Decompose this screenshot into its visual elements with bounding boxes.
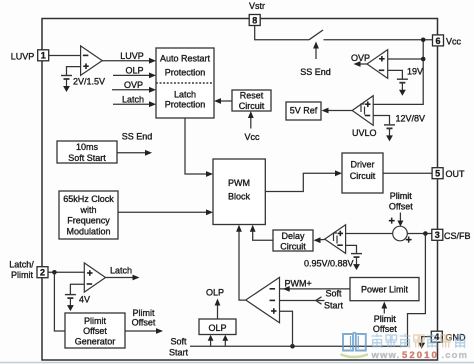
- svg-text:Generator: Generator: [75, 336, 116, 346]
- svg-text:Plimit: Plimit: [133, 308, 155, 318]
- svg-text:Plimit: Plimit: [84, 316, 106, 326]
- svg-text:Offset: Offset: [132, 318, 156, 328]
- svg-text:Plimit: Plimit: [11, 270, 33, 280]
- svg-text:Soft: Soft: [170, 336, 187, 346]
- svg-text:+: +: [406, 235, 412, 247]
- svg-text:Circuit: Circuit: [280, 241, 306, 251]
- svg-text:OUT: OUT: [446, 169, 466, 179]
- svg-text:Latch: Latch: [110, 266, 132, 276]
- svg-text:UVLO: UVLO: [352, 128, 377, 138]
- svg-text:LUVP: LUVP: [11, 51, 35, 61]
- svg-text:LUVP: LUVP: [120, 51, 144, 61]
- svg-text:65kHz Clock: 65kHz Clock: [63, 194, 114, 204]
- svg-text:SS End: SS End: [122, 132, 153, 142]
- svg-text:1: 1: [41, 51, 46, 61]
- svg-text:OVP: OVP: [351, 53, 370, 63]
- svg-text:Block: Block: [228, 192, 251, 202]
- svg-text:19V: 19V: [407, 67, 423, 77]
- svg-text:2: 2: [40, 268, 45, 278]
- svg-text:4V: 4V: [79, 295, 90, 305]
- svg-text:CS/FB: CS/FB: [444, 231, 471, 241]
- svg-text:3: 3: [435, 230, 440, 240]
- svg-text:Offset: Offset: [83, 326, 107, 336]
- svg-text:Start: Start: [324, 300, 344, 310]
- svg-text:with: with: [79, 205, 96, 215]
- svg-text:.com: .com: [442, 350, 469, 361]
- svg-text:Frequency: Frequency: [67, 216, 110, 226]
- svg-text:PWM: PWM: [228, 178, 250, 188]
- svg-text:Delay: Delay: [281, 231, 305, 241]
- svg-text:OLP: OLP: [206, 288, 224, 298]
- svg-text:Offset: Offset: [389, 202, 413, 212]
- svg-text:Protection: Protection: [165, 68, 206, 78]
- svg-text:Driver: Driver: [351, 160, 375, 170]
- svg-text:5: 5: [435, 169, 440, 179]
- svg-text:Power Limit: Power Limit: [361, 285, 409, 295]
- svg-text:2V/1.5V: 2V/1.5V: [73, 77, 105, 87]
- svg-text:0.95V/0.88V: 0.95V/0.88V: [304, 259, 354, 269]
- svg-text:52010: 52010: [402, 350, 439, 361]
- svg-text:Soft Start: Soft Start: [68, 153, 106, 163]
- svg-text:Latch: Latch: [174, 90, 196, 100]
- svg-text:5V Ref: 5V Ref: [290, 106, 318, 116]
- svg-text:SS End: SS End: [300, 67, 331, 77]
- svg-text:6: 6: [435, 36, 440, 46]
- svg-text:OVP: OVP: [124, 80, 143, 90]
- svg-text:Plimit: Plimit: [374, 314, 396, 324]
- svg-text:Auto Restart: Auto Restart: [160, 54, 211, 64]
- svg-text:Soft: Soft: [325, 288, 342, 298]
- svg-text:Latch/: Latch/: [9, 260, 34, 270]
- svg-text:OLP: OLP: [208, 323, 226, 333]
- svg-text:8: 8: [252, 15, 257, 25]
- svg-text:10ms: 10ms: [76, 142, 99, 152]
- svg-text:Vcc: Vcc: [244, 132, 260, 142]
- svg-text:OLP: OLP: [125, 66, 143, 76]
- svg-text:Vstr: Vstr: [249, 1, 265, 11]
- svg-text:Circuit: Circuit: [239, 101, 265, 111]
- svg-text:PWM+: PWM+: [285, 279, 312, 289]
- svg-text:12V/8V: 12V/8V: [396, 114, 426, 124]
- svg-text:Modulation: Modulation: [66, 226, 110, 236]
- svg-text:+: +: [389, 216, 395, 228]
- svg-text:Start: Start: [169, 347, 189, 357]
- svg-text:Reset: Reset: [240, 91, 264, 101]
- svg-text:Plimit: Plimit: [390, 191, 412, 201]
- svg-text:Offset: Offset: [373, 324, 397, 334]
- svg-text:www.: www.: [371, 350, 401, 361]
- svg-text:Vcc: Vcc: [446, 36, 462, 46]
- svg-text:Latch: Latch: [122, 95, 144, 105]
- svg-text:Circuit: Circuit: [350, 171, 376, 181]
- svg-text:Protection: Protection: [165, 100, 206, 110]
